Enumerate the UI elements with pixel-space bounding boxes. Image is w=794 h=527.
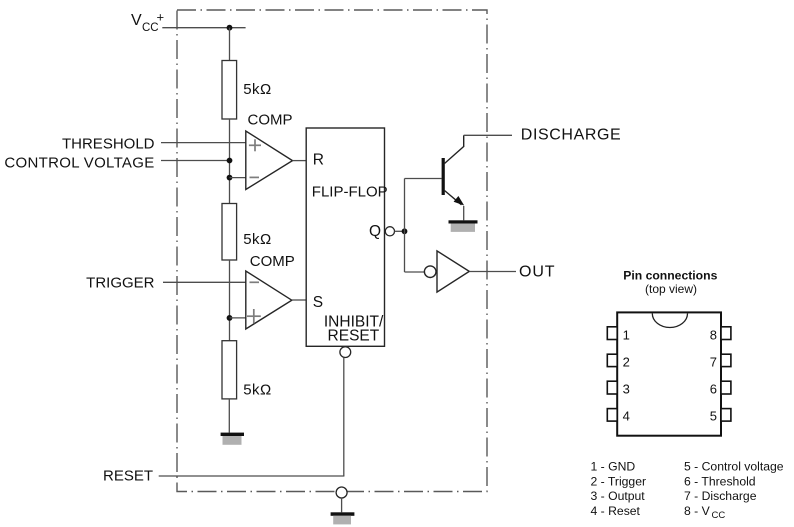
node VCC label — [131, 10, 164, 35]
wire inhibit to reset — [343, 358, 345, 477]
wire bus VCC to R1 — [229, 28, 231, 61]
package pin 4 lead — [607, 409, 617, 422]
svg-text:7 - Discharge: 7 - Discharge — [684, 489, 757, 503]
wire TRIGGER — [163, 281, 246, 283]
svg-text:4 - Reset: 4 - Reset — [591, 504, 641, 518]
svg-text:6: 6 — [710, 382, 717, 397]
node junction dot Q — [402, 228, 408, 234]
package pin 6 lead — [721, 381, 731, 394]
label INHIBIT/RESET — [324, 313, 384, 344]
package pin 3 lead — [607, 381, 617, 394]
wire comp1 inverting input — [230, 177, 246, 179]
package notch — [652, 314, 687, 328]
svg-text:COMP: COMP — [250, 253, 295, 270]
svg-text:1: 1 — [623, 327, 630, 342]
wire VCC horizontal — [162, 27, 245, 29]
inverter buffer U2 — [437, 251, 469, 292]
package pin 7 lead — [721, 354, 731, 366]
resistor R3 5k — [222, 341, 237, 399]
comp1 minus symbol — [250, 176, 260, 178]
svg-text:R: R — [313, 152, 324, 169]
comp2 minus symbol — [250, 281, 260, 283]
svg-text:(top view): (top view) — [645, 282, 697, 296]
svg-text:7: 7 — [710, 355, 717, 370]
wire RESET — [159, 475, 345, 477]
svg-text:2 - Trigger: 2 - Trigger — [591, 475, 647, 489]
svg-text:8: 8 — [710, 327, 717, 342]
pin 1 terminal circle on border — [336, 487, 347, 498]
svg-text:2: 2 — [623, 355, 630, 370]
package boundary dash-dot border — [177, 10, 487, 492]
op-amp COMP1 (threshold comparator) — [246, 131, 293, 190]
svg-text:5 - Control voltage: 5 - Control voltage — [684, 459, 784, 473]
svg-text:OUT: OUT — [519, 263, 555, 280]
svg-text:RESET: RESET — [328, 328, 380, 345]
svg-text:5: 5 — [710, 409, 717, 424]
wire Q vertical bus — [404, 179, 406, 273]
ground at transistor emitter — [449, 220, 478, 232]
wire emitter to ground — [463, 206, 465, 220]
ground under R3 — [221, 433, 244, 445]
svg-text:6 - Threshold: 6 - Threshold — [684, 475, 756, 489]
wire collector to DISCHARGE — [464, 134, 512, 136]
svg-text:RESET: RESET — [103, 468, 153, 485]
wire Q bubble to node — [395, 230, 405, 232]
svg-text:CONTROL VOLTAGE: CONTROL VOLTAGE — [4, 154, 154, 171]
node junction dot VCC — [227, 25, 233, 31]
svg-text:V: V — [131, 12, 142, 29]
IC package body — [617, 312, 721, 435]
wire comp2 output to S input — [292, 299, 306, 301]
svg-text:Pin connections: Pin connections — [623, 269, 717, 283]
ground at pin 1 — [331, 512, 355, 524]
svg-text:Q: Q — [369, 223, 381, 240]
transistor Q1 base wire — [405, 178, 442, 180]
pin list left column — [591, 459, 647, 518]
Q output bubble — [385, 227, 394, 236]
flip-flop inhibit bubble — [340, 347, 351, 358]
pin list right column — [684, 459, 784, 521]
svg-text:5kΩ: 5kΩ — [243, 231, 272, 248]
wire CONTROL VOLTAGE — [161, 160, 230, 162]
wire comp2 plus input — [230, 317, 246, 319]
svg-text:CC: CC — [712, 510, 726, 521]
package pin 8 lead — [721, 327, 731, 340]
comp1 plus symbol — [249, 139, 261, 151]
svg-text:FLIP-FLOP: FLIP-FLOP — [312, 184, 388, 201]
package pin 1 lead — [607, 327, 617, 340]
svg-text:DISCHARGE: DISCHARGE — [521, 127, 622, 144]
wire pin1 to ground — [341, 498, 343, 512]
inverter input bubble — [424, 266, 436, 278]
transistor Q1 — [442, 135, 465, 205]
svg-text:4: 4 — [623, 409, 630, 424]
flip-flop U1 box — [306, 128, 384, 346]
svg-text:COMP: COMP — [248, 112, 293, 129]
node junction dot control voltage — [227, 158, 233, 164]
wire R2 to R3 — [229, 260, 231, 341]
svg-text:8 - V: 8 - V — [684, 504, 711, 518]
wire inverter output — [469, 271, 516, 273]
svg-text:+: + — [157, 10, 165, 25]
op-amp COMP2 (trigger comparator) — [246, 271, 292, 329]
svg-text:TRIGGER: TRIGGER — [86, 275, 155, 292]
svg-text:3 - Output: 3 - Output — [591, 489, 646, 503]
wire inverter input — [405, 271, 425, 273]
node junction dot comp1 inverting tap — [227, 175, 233, 181]
resistor R1 5k — [222, 61, 237, 120]
wire R3 to ground — [228, 399, 230, 433]
package pin 2 lead — [607, 354, 617, 366]
svg-text:THRESHOLD: THRESHOLD — [62, 135, 155, 152]
svg-text:S: S — [313, 294, 323, 311]
wire comp1 output to R input — [293, 160, 307, 162]
svg-text:3: 3 — [623, 382, 630, 397]
wire R1 to R2 — [229, 119, 231, 204]
comp2 plus symbol — [247, 309, 261, 323]
node junction dot comp2 tap — [227, 315, 233, 321]
svg-text:1 - GND: 1 - GND — [591, 459, 636, 473]
svg-text:5kΩ: 5kΩ — [243, 81, 272, 98]
resistor R2 5k — [222, 204, 237, 261]
svg-text:5kΩ: 5kΩ — [243, 381, 272, 398]
package pin 5 lead — [721, 409, 731, 422]
wire THRESHOLD — [161, 142, 246, 144]
